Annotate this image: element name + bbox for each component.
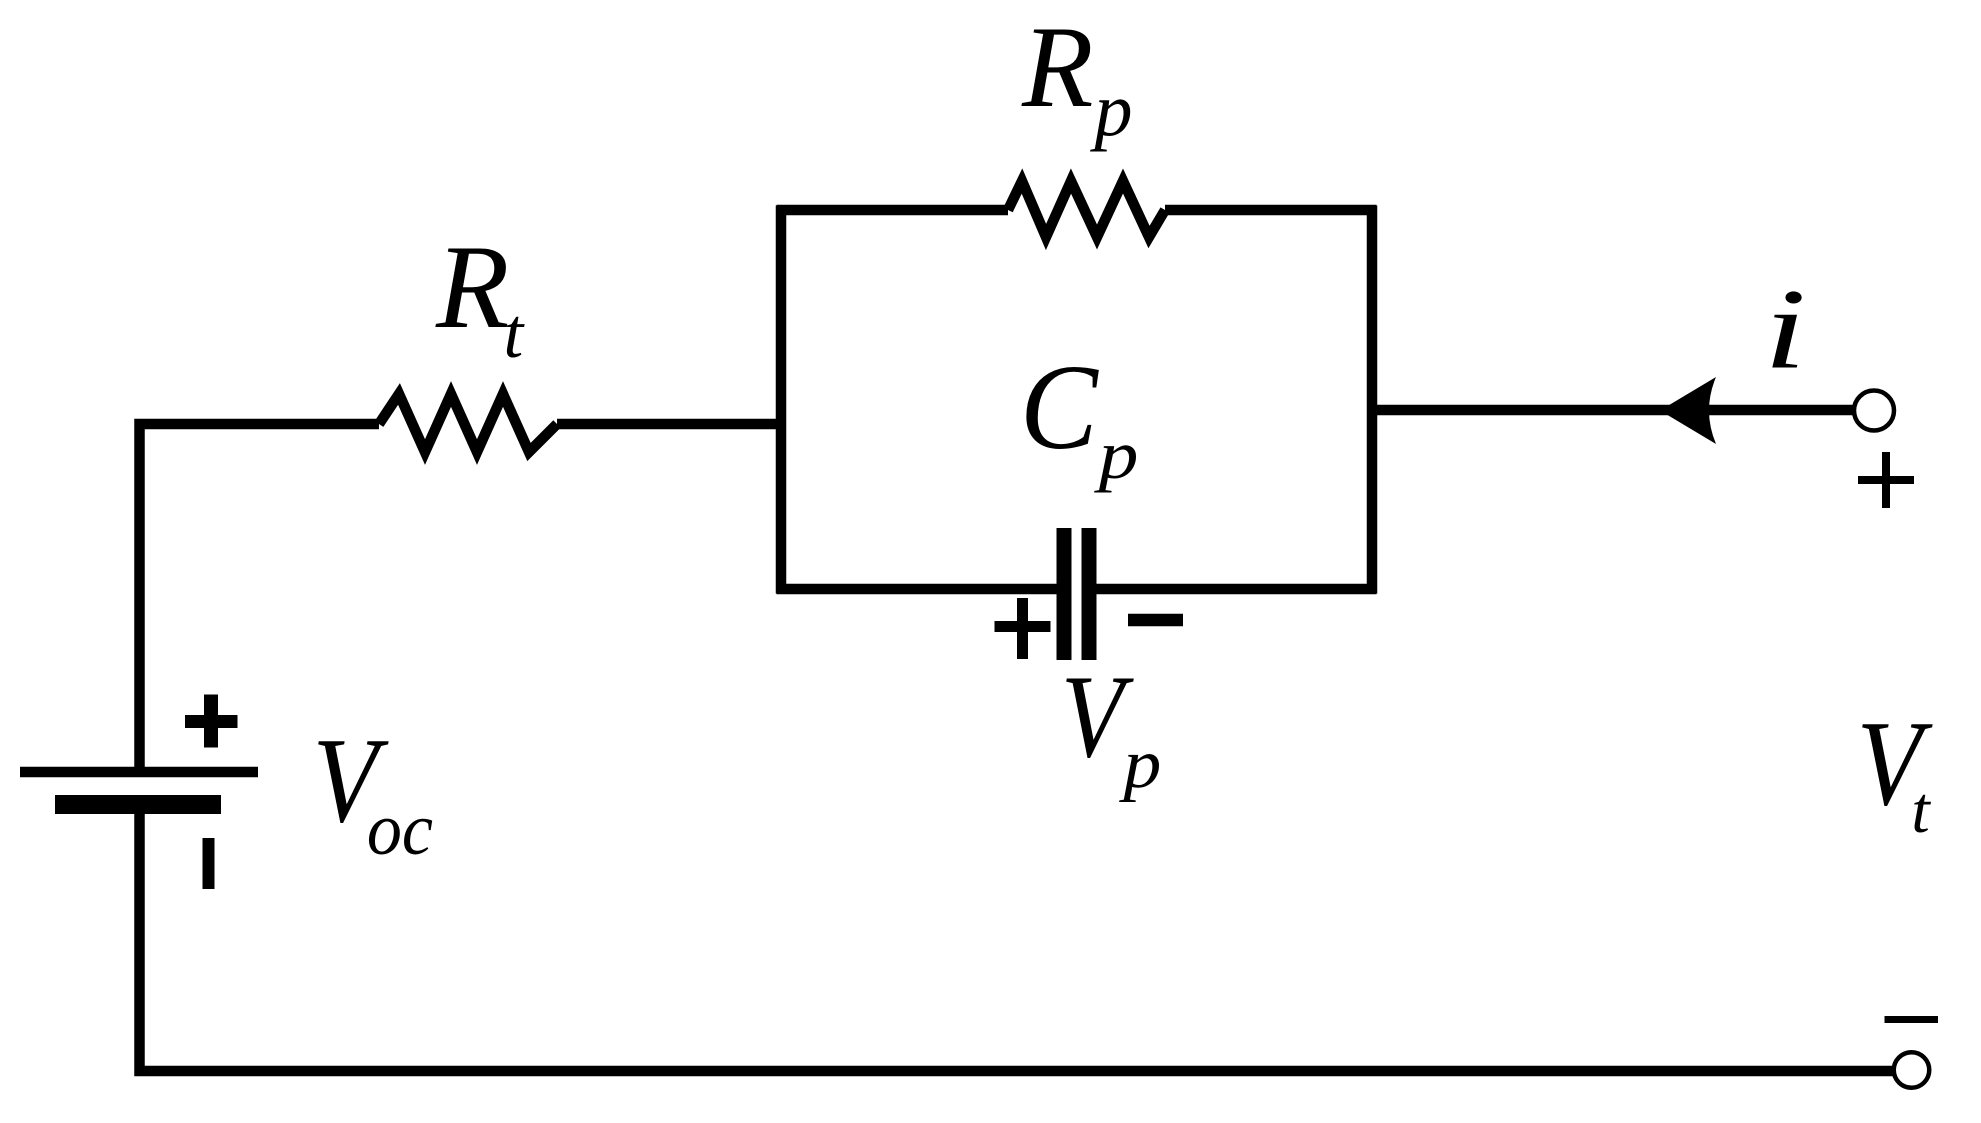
svg-text:t: t — [1911, 774, 1931, 847]
terminal circle (top right) — [1854, 391, 1894, 431]
resistor Rt — [379, 394, 557, 452]
node box: left edge of parallel RC loop — [776, 206, 787, 594]
label Cp — [1020, 340, 1139, 494]
wire: box top edge right segment — [1165, 205, 1377, 216]
wire: battery - down and bottom wire to terminal — [140, 804, 1896, 1071]
svg-text:R: R — [435, 220, 509, 353]
terminal circle (bottom right) — [1894, 1052, 1930, 1088]
svg-text:p: p — [1118, 725, 1161, 803]
capacitor Cp plates — [1064, 528, 1089, 660]
label Rp — [1021, 3, 1133, 152]
label Vt — [1857, 696, 1934, 847]
label Rt — [435, 220, 526, 373]
resistor Rp — [1008, 181, 1165, 237]
terminal polarity + (top right) — [1858, 452, 1914, 508]
capacitor polarity + — [995, 598, 1051, 659]
svg-text:t: t — [504, 295, 526, 373]
svg-text:p: p — [1093, 418, 1138, 494]
capacitor polarity - — [1128, 614, 1183, 627]
battery polarity + — [185, 695, 238, 748]
battery polarity - (vertical tick) — [203, 838, 215, 889]
wire: box top edge left segment — [777, 205, 1009, 216]
svg-text:oc: oc — [367, 788, 433, 870]
terminal polarity - (bottom right) — [1885, 1016, 1939, 1023]
wire: box bottom edge right segment — [1097, 584, 1377, 595]
wire: box bottom edge left segment — [777, 584, 1057, 595]
svg-text:R: R — [1021, 3, 1093, 132]
current arrow i (pointing left) — [1660, 377, 1716, 444]
svg-text:C: C — [1020, 340, 1099, 475]
svg-text:p: p — [1090, 68, 1133, 152]
battery Voc: + plate (long thin) — [20, 767, 258, 778]
label Voc — [313, 713, 433, 871]
wire: box right edge to terminal — [1377, 405, 1856, 416]
node box: right edge of parallel RC loop — [1367, 206, 1378, 594]
svg-text:i: i — [1764, 266, 1806, 393]
wire: top-left horizontal and left vertical down to battery + plate — [140, 424, 380, 772]
wire: Rt to RC box left edge — [557, 419, 781, 430]
label Vp — [1061, 651, 1161, 802]
battery Voc: - plate (short thick) — [55, 795, 221, 814]
